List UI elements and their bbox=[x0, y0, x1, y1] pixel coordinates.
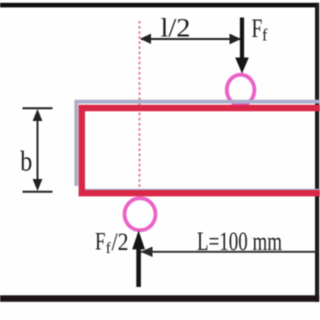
svg-text:b: b bbox=[20, 145, 32, 177]
frame right bar bbox=[315, 3, 319, 302]
svg-text:F: F bbox=[252, 14, 263, 43]
frame top bar bbox=[0, 3, 319, 8]
svg-text:L=100 mm: L=100 mm bbox=[197, 227, 282, 256]
beam (red rectangle) bbox=[79, 108, 320, 193]
dimension b: up arrowhead bbox=[33, 109, 43, 121]
bottom roller support circle bbox=[125, 198, 156, 230]
dimension l/2: right arrowhead bbox=[230, 34, 242, 45]
svg-text:l/2: l/2 bbox=[161, 14, 191, 43]
dimension L: left arrowhead bbox=[141, 247, 153, 257]
force arrow Ff: arrowhead bbox=[235, 58, 249, 74]
dimension b: down arrowhead bbox=[33, 179, 43, 191]
dimension b: vertical line bbox=[37, 112, 39, 188]
dimension l/2: line bbox=[141, 38, 240, 40]
dimension b: bottom tick bbox=[23, 191, 53, 193]
dimension l/2: left arrowhead bbox=[140, 34, 151, 44]
dimension b: top tick bbox=[23, 107, 53, 109]
force arrow Ff: shaft bbox=[240, 18, 244, 61]
svg-text:F: F bbox=[95, 229, 106, 256]
dimension L: line bbox=[141, 251, 317, 253]
svg-text:f: f bbox=[262, 26, 268, 45]
force arrow Ff/2: arrowhead bbox=[132, 231, 145, 250]
svg-text:/2: /2 bbox=[112, 229, 129, 256]
frame bottom bar bbox=[0, 295, 319, 302]
force arrow Ff/2: shaft bbox=[136, 246, 141, 287]
dashed centerline bbox=[138, 21, 140, 197]
beam shadow outline (blue-gray) bbox=[76, 102, 320, 186]
top roller support circle bbox=[227, 75, 255, 106]
